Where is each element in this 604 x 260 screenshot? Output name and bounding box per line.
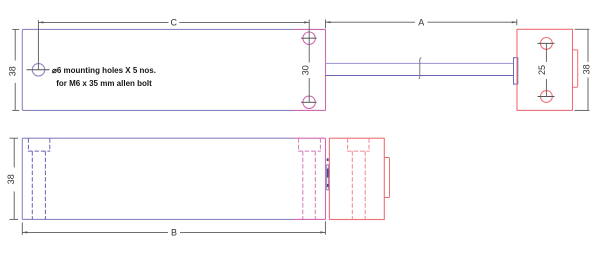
bracket front (pink) — [294, 138, 326, 219]
extension line C right / dim 30 line — [308, 20, 310, 63]
wire: plate left edge — [21, 29, 23, 110]
rod end seen between parts (blue) — [327, 165, 329, 190]
tick A right — [516, 19, 518, 25]
dim 38 left: ticks and line — [12, 28, 19, 30]
dimension A line — [326, 21, 416, 23]
wire: plate top edge — [22, 137, 293, 139]
tab on block front right — [384, 158, 389, 198]
extension line C left (through hole) — [37, 20, 39, 70]
break mark on rod — [419, 58, 422, 79]
leader line to note text — [27, 69, 50, 71]
annotation note — [51, 64, 157, 90]
svg-text:38: 38 — [8, 66, 18, 76]
tab on block right side — [573, 50, 578, 87]
extension B right — [324, 221, 326, 234]
hidden counterbore right (pink dashed) — [298, 138, 321, 219]
block (red) top view — [517, 29, 573, 110]
block hole bottom (red) — [541, 91, 553, 103]
crosshair bars block holes — [538, 43, 555, 96]
arrowheads bottom — [22, 231, 325, 233]
svg-text:A: A — [418, 17, 424, 27]
svg-text:25: 25 — [537, 65, 547, 75]
arrowheads top — [38, 21, 516, 23]
crosshair bars — [27, 38, 317, 102]
dim 25 line — [545, 43, 547, 62]
plate P1 (blue) outline — [22, 29, 293, 110]
collar at rod end (blue) — [514, 58, 518, 84]
wire: plate bottom edge (blue portion) — [22, 109, 293, 111]
mounting hole (blue, left) — [32, 64, 44, 76]
bracket hole top (pink) — [303, 32, 315, 44]
svg-text:38: 38 — [581, 64, 591, 74]
dim 38 bottom-left ticks and line — [10, 137, 19, 139]
extension line A left — [325, 20, 327, 29]
wire: plate left edge — [21, 138, 23, 219]
bracket (pink) overlapping plate right end — [294, 29, 326, 110]
wire: plate bottom edge — [22, 218, 293, 220]
crosshair bar hole top — [301, 37, 317, 39]
dim 38 right: extensions and line — [575, 28, 590, 30]
block front (red) — [329, 138, 384, 219]
wire: plate top edge (blue portion) — [22, 28, 293, 30]
svg-text:38: 38 — [6, 174, 16, 184]
wire: bracket top edge — [294, 28, 326, 30]
wire: rod bottom line — [326, 75, 514, 77]
dimension C line — [38, 21, 168, 23]
wire: bracket bottom edge — [294, 109, 326, 111]
dimension B line — [22, 231, 168, 233]
hidden counterbore left (blue dashed) — [28, 138, 50, 219]
plate P1 front (blue) — [22, 138, 293, 219]
svg-text:C: C — [171, 18, 178, 28]
hidden counterbore block (red dashed) — [347, 138, 369, 219]
svg-text:B: B — [171, 228, 177, 238]
svg-text:30: 30 — [300, 65, 310, 75]
crosshair bar hole bottom — [301, 101, 317, 103]
extension B left — [21, 223, 23, 235]
bracket hole bottom (pink) — [303, 96, 315, 108]
block hole top (red) — [541, 38, 553, 50]
wire: bracket right edge — [325, 29, 327, 110]
wire: rod top line — [326, 62, 514, 64]
